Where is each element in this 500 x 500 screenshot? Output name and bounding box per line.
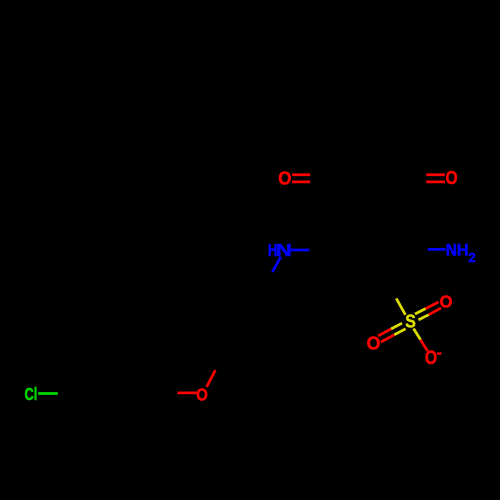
- svg-text:N: N: [276, 241, 292, 260]
- svg-text:Cl: Cl: [25, 385, 38, 404]
- double bond S=O upper-right: outer line: [415, 309, 426, 314]
- svg-text:O: O: [446, 167, 458, 189]
- double bond S=O lower-left: inner line: [394, 329, 405, 335]
- svg-text:O: O: [440, 291, 453, 312]
- svg-text:H: H: [457, 240, 469, 259]
- bond N-C left (blue half): [428, 248, 446, 251]
- bond O-C left (red half): [178, 392, 197, 395]
- single bond S-O(-) (yellow half): [414, 329, 421, 340]
- bond S-C ring (yellow half): [396, 298, 405, 314]
- double bond C=O left (red halves): [292, 173, 310, 176]
- double bond C=O right (red halves): [426, 173, 445, 176]
- bond N-C diagonal (blue half): [272, 257, 281, 272]
- bond Cl-C (green half): [38, 392, 58, 395]
- bond N-C right (blue half): [291, 249, 309, 252]
- double bond S=O upper-right: inner line: [418, 315, 428, 320]
- svg-text:O: O: [196, 385, 208, 405]
- charge minus sign: [437, 352, 442, 354]
- svg-text:O: O: [367, 333, 381, 353]
- svg-text:2: 2: [468, 250, 475, 265]
- double bond S=O lower-left: outer line: [391, 323, 402, 329]
- svg-text:O: O: [425, 347, 437, 369]
- svg-text:N: N: [446, 241, 457, 260]
- single bond S-O(-) (red half): [421, 340, 428, 351]
- bond O-C diagonal (red half): [207, 370, 216, 387]
- svg-text:O: O: [278, 168, 291, 189]
